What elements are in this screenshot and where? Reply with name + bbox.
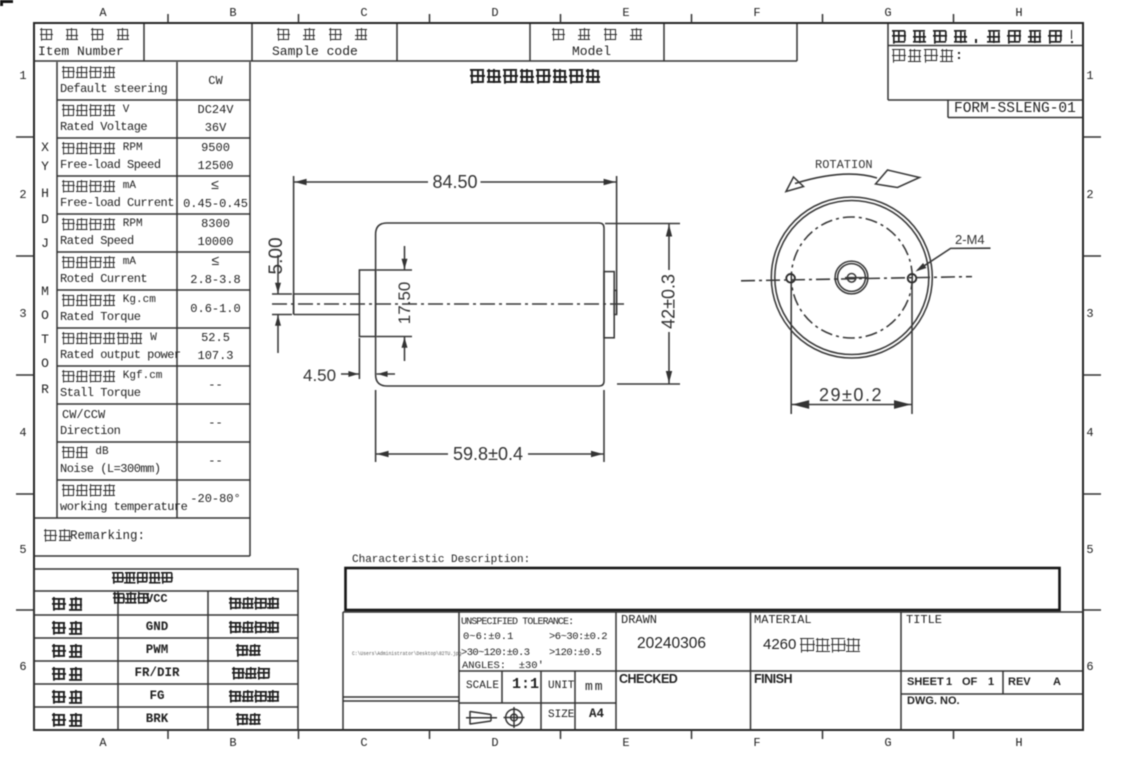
wire row 4 xyxy=(52,667,86,681)
wire row 3 xyxy=(52,644,86,658)
rev cell xyxy=(1008,677,1031,689)
zone letters top xyxy=(99,7,106,20)
header 样品单号 xyxy=(277,28,381,41)
drawn cell xyxy=(621,614,657,627)
finish cell xyxy=(754,673,792,686)
wire row 5 xyxy=(52,690,86,704)
file path text xyxy=(352,651,461,657)
remark row xyxy=(44,529,73,542)
dim text 42±0.3 xyxy=(660,270,679,331)
projection symbol cone xyxy=(470,711,491,725)
dimension 59.8±0.4 xyxy=(375,390,377,462)
material 无刷电机 xyxy=(800,638,862,653)
wire color table lines xyxy=(34,569,298,730)
spec row working temperature xyxy=(62,484,117,497)
rear boss xyxy=(604,272,614,338)
center boss circles xyxy=(835,261,868,294)
dim text 84.50 xyxy=(429,173,480,192)
rotation arrow xyxy=(795,174,877,183)
controlled seal xyxy=(892,49,963,63)
characteristic description box xyxy=(346,568,1060,610)
dimension 17.50 xyxy=(377,269,412,271)
M4 hole left xyxy=(786,274,795,283)
rear stub xyxy=(614,290,616,314)
front collar xyxy=(359,270,375,337)
material cell xyxy=(754,614,812,627)
spec row default steering xyxy=(62,66,117,79)
spec row rated speed xyxy=(62,218,117,231)
shaft circle xyxy=(847,274,856,283)
dim text 5.00 xyxy=(267,237,287,274)
dim text 29±0.2 xyxy=(819,386,883,405)
wire table title 电机导线应 xyxy=(112,572,173,584)
info box top right xyxy=(887,24,889,100)
label 2-M4 xyxy=(955,233,985,247)
shaft xyxy=(294,294,360,315)
spec row rated current xyxy=(62,256,117,269)
M4 hole right xyxy=(908,274,917,283)
wire table overflow 用说明 + VCC xyxy=(113,592,150,604)
title cell xyxy=(906,614,942,627)
zone letters bottom xyxy=(99,737,106,750)
top header table xyxy=(143,24,145,61)
wire row 1 xyxy=(52,597,86,611)
spec row stall torque xyxy=(62,370,117,383)
spec row rated output power xyxy=(62,332,144,345)
dimension 5.00 xyxy=(272,293,292,295)
projection symbol target xyxy=(506,709,523,726)
centerline end view xyxy=(741,277,972,281)
tolerance block xyxy=(461,618,573,629)
header 项目编号 xyxy=(40,28,142,41)
scan artifact top-left xyxy=(0,0,13,3)
dwg no cell xyxy=(907,696,960,708)
characteristic description label xyxy=(352,555,530,567)
form number box xyxy=(947,100,949,118)
motor letters column xyxy=(41,141,49,155)
checked cell xyxy=(619,673,677,686)
dimension 4.50 xyxy=(358,338,360,379)
zone numbers right xyxy=(1086,70,1093,83)
sheet cell xyxy=(907,677,944,689)
header 电机型号 xyxy=(552,28,656,41)
leader 2-M4 xyxy=(918,248,991,270)
wire row 2 xyxy=(52,621,86,635)
wire row 6 xyxy=(52,713,86,727)
title block lines xyxy=(343,611,1083,613)
border zone ticks xyxy=(167,14,169,23)
zone numbers left xyxy=(19,70,26,83)
spec row rated torque xyxy=(62,294,117,307)
centerline side view xyxy=(272,303,624,305)
label ROTATION xyxy=(815,159,873,172)
wire row1 right 电源正极 xyxy=(229,597,280,610)
spec row direction xyxy=(62,409,105,422)
spec row noise xyxy=(62,446,89,459)
dimension 84.50 xyxy=(293,176,295,314)
dimension 42±0.3 xyxy=(605,223,680,225)
motor body side view xyxy=(376,223,604,386)
dimension 29±0.2 xyxy=(790,283,792,414)
preview cell lines xyxy=(343,696,459,698)
spec row rated voltage xyxy=(62,104,117,117)
end view outer circles xyxy=(771,197,932,358)
spec table lines xyxy=(56,62,58,518)
dim text 17.50 xyxy=(396,281,414,324)
dim text 59.8±0.4 xyxy=(450,445,526,464)
title 无刷电机外形简图 xyxy=(470,69,602,84)
spec row free-load speed xyxy=(62,142,117,155)
FORM-SSLENG-01 xyxy=(954,102,1076,117)
spec row free-load current xyxy=(62,180,117,193)
scale cell xyxy=(466,681,499,693)
info secret banner xyxy=(892,30,1082,44)
dim text 4.50 xyxy=(303,367,336,385)
bolt circle xyxy=(791,217,912,338)
